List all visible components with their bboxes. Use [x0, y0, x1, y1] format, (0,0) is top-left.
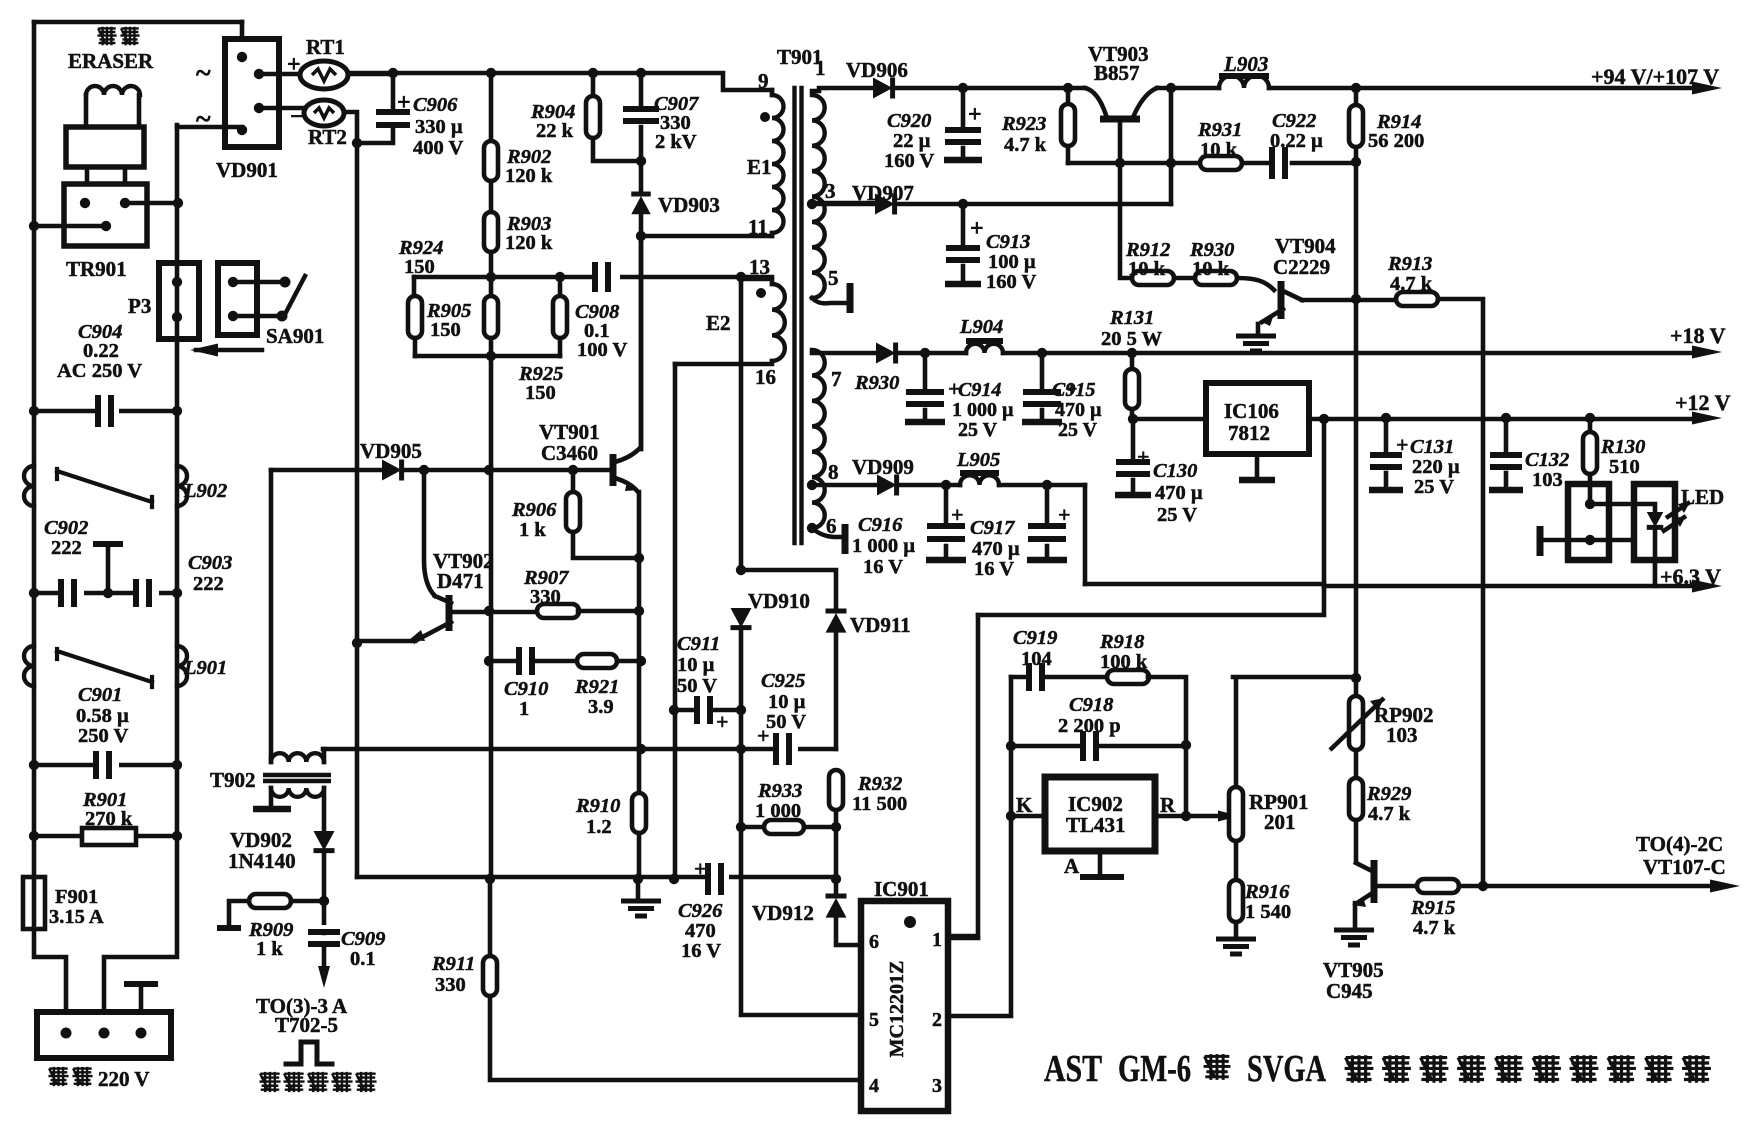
svg-text:22 µ: 22 µ	[893, 130, 931, 152]
svg-text:3.9: 3.9	[588, 696, 614, 718]
svg-text:25 V: 25 V	[958, 419, 998, 441]
svg-text:120 k: 120 k	[505, 165, 553, 187]
svg-text:R915: R915	[1410, 897, 1455, 919]
svg-text:4.7 k: 4.7 k	[1004, 134, 1047, 156]
svg-text:IC901: IC901	[874, 877, 929, 901]
svg-text:A: A	[1064, 854, 1080, 878]
svg-text:R913: R913	[1387, 253, 1432, 275]
svg-text:25 V: 25 V	[1058, 419, 1098, 441]
svg-text:~: ~	[196, 58, 211, 89]
svg-text:R932: R932	[857, 773, 902, 795]
svg-text:1: 1	[519, 698, 529, 720]
svg-text:0.1: 0.1	[350, 948, 376, 970]
svg-text:400 V: 400 V	[413, 137, 464, 159]
svg-text:+6.3 V: +6.3 V	[1660, 564, 1721, 589]
svg-text:+: +	[757, 723, 770, 748]
svg-text:20 5 W: 20 5 W	[1101, 328, 1163, 350]
svg-text:C918: C918	[1069, 694, 1113, 716]
svg-text:C131: C131	[1410, 436, 1454, 458]
svg-text:470 µ: 470 µ	[972, 538, 1020, 560]
svg-text:+: +	[397, 90, 411, 116]
svg-text:6: 6	[869, 931, 879, 953]
svg-text:+: +	[1396, 432, 1409, 457]
svg-text:2 kV: 2 kV	[655, 131, 697, 153]
svg-text:C3460: C3460	[541, 441, 598, 465]
svg-text:B857: B857	[1094, 61, 1140, 85]
svg-text:R911: R911	[431, 953, 475, 975]
svg-text:AST: AST	[1044, 1048, 1102, 1090]
svg-text:470: 470	[685, 920, 716, 942]
svg-text:E2: E2	[706, 311, 731, 335]
svg-text:C902: C902	[44, 517, 88, 539]
svg-text:11 500: 11 500	[852, 793, 907, 815]
svg-text:T902: T902	[210, 768, 256, 792]
svg-text:5: 5	[828, 266, 839, 290]
svg-text:R933: R933	[757, 780, 802, 802]
svg-text:50 V: 50 V	[677, 675, 717, 697]
svg-text:C945: C945	[1326, 979, 1373, 1003]
svg-text:330: 330	[435, 974, 466, 996]
svg-text:L905: L905	[956, 449, 1000, 471]
svg-text:AC 250 V: AC 250 V	[57, 360, 142, 382]
svg-text:1 000 µ: 1 000 µ	[852, 535, 915, 557]
svg-text:VD903: VD903	[658, 193, 720, 217]
svg-text:C911: C911	[677, 633, 720, 655]
svg-text:150: 150	[404, 256, 435, 278]
svg-text:C916: C916	[858, 514, 903, 536]
svg-text:R916: R916	[1244, 881, 1290, 903]
svg-text:7812: 7812	[1228, 421, 1270, 445]
svg-text:3: 3	[932, 1075, 942, 1097]
svg-text:−: −	[290, 104, 304, 130]
svg-text:1 000: 1 000	[755, 800, 801, 822]
svg-text:TR901: TR901	[66, 257, 127, 281]
svg-text:6: 6	[826, 514, 837, 538]
svg-text:1 000 µ: 1 000 µ	[952, 399, 1014, 421]
svg-text:+94 V/+107 V: +94 V/+107 V	[1591, 64, 1719, 89]
svg-text:5: 5	[869, 1009, 879, 1031]
svg-text:E1: E1	[747, 155, 772, 179]
svg-text:C919: C919	[1013, 627, 1057, 649]
svg-text:16 V: 16 V	[974, 558, 1014, 580]
svg-text:C132: C132	[1525, 449, 1569, 471]
svg-text:VD909: VD909	[852, 455, 914, 479]
svg-text:R: R	[1160, 793, 1176, 817]
svg-text:C2229: C2229	[1273, 255, 1330, 279]
svg-text:R931: R931	[1197, 119, 1242, 141]
svg-text:C909: C909	[341, 928, 385, 950]
svg-text:56 200: 56 200	[1368, 130, 1424, 152]
svg-text:SA901: SA901	[266, 324, 324, 348]
svg-text:150: 150	[525, 382, 556, 404]
svg-text:+: +	[694, 856, 707, 881]
svg-text:MC12201Z: MC12201Z	[886, 961, 908, 1058]
svg-text:L902: L902	[183, 480, 227, 502]
svg-text:GM-6: GM-6	[1118, 1048, 1191, 1090]
svg-text:+: +	[968, 102, 982, 128]
svg-text:C915: C915	[1052, 379, 1095, 401]
svg-text:330 µ: 330 µ	[415, 116, 463, 138]
svg-text:2: 2	[932, 1009, 942, 1031]
svg-text:SVGA: SVGA	[1247, 1048, 1326, 1090]
svg-text:1: 1	[815, 56, 826, 80]
svg-text:10 k: 10 k	[1200, 139, 1238, 161]
svg-text:C913: C913	[986, 231, 1030, 253]
svg-text:+: +	[287, 52, 301, 78]
svg-text:+: +	[970, 216, 984, 242]
svg-text:R921: R921	[574, 676, 619, 698]
svg-text:+18 V: +18 V	[1670, 323, 1726, 348]
svg-text:10 k: 10 k	[1192, 258, 1230, 280]
svg-text:270 k: 270 k	[85, 808, 133, 830]
svg-text:100 k: 100 k	[1100, 651, 1148, 673]
svg-text:TL431: TL431	[1066, 813, 1126, 837]
svg-text:C917: C917	[970, 517, 1015, 539]
svg-text:VD901: VD901	[216, 158, 278, 182]
svg-text:1 540: 1 540	[1245, 901, 1291, 923]
svg-text:470 µ: 470 µ	[1155, 482, 1203, 504]
svg-text:+: +	[716, 709, 729, 734]
svg-text:R930: R930	[854, 372, 899, 394]
svg-text:RT2: RT2	[308, 125, 347, 149]
svg-text:L904: L904	[959, 316, 1003, 338]
svg-text:120 k: 120 k	[505, 232, 553, 254]
svg-text:VD910: VD910	[748, 589, 810, 613]
svg-text:16 V: 16 V	[681, 940, 721, 962]
svg-text:250 V: 250 V	[78, 725, 129, 747]
svg-text:9: 9	[758, 69, 769, 93]
svg-text:4.7 k: 4.7 k	[1413, 917, 1456, 939]
svg-text:201: 201	[1264, 810, 1296, 834]
svg-text:P3: P3	[128, 294, 151, 318]
svg-text:C926: C926	[678, 900, 723, 922]
svg-text:104: 104	[1021, 648, 1052, 670]
svg-text:L903: L903	[1223, 52, 1268, 76]
svg-text:11: 11	[748, 215, 768, 239]
svg-text:3.15 A: 3.15 A	[49, 906, 104, 928]
svg-text:330: 330	[530, 586, 561, 608]
svg-text:3: 3	[825, 179, 836, 203]
svg-text:2 200 p: 2 200 p	[1058, 715, 1121, 737]
svg-text:1: 1	[932, 929, 942, 951]
svg-text:10 µ: 10 µ	[768, 691, 806, 713]
svg-text:R910: R910	[575, 795, 620, 817]
svg-text:103: 103	[1532, 469, 1563, 491]
svg-text:470 µ: 470 µ	[1055, 399, 1102, 421]
svg-text:C130: C130	[1153, 460, 1197, 482]
svg-text:TO(4)-2C: TO(4)-2C	[1636, 832, 1723, 856]
svg-text:1N4140: 1N4140	[228, 849, 296, 873]
svg-text:0.22 µ: 0.22 µ	[1270, 130, 1323, 152]
svg-text:1.2: 1.2	[586, 816, 612, 838]
svg-text:C920: C920	[887, 110, 931, 132]
svg-text:100 V: 100 V	[577, 339, 628, 361]
svg-text:C914: C914	[958, 379, 1001, 401]
svg-text:RT1: RT1	[306, 35, 345, 59]
svg-text:22 k: 22 k	[536, 120, 574, 142]
svg-text:D471: D471	[437, 569, 484, 593]
svg-text:4: 4	[869, 1075, 879, 1097]
svg-text:222: 222	[51, 537, 82, 559]
svg-text:VD906: VD906	[846, 58, 908, 82]
svg-text:L901: L901	[183, 657, 227, 679]
svg-text:VD907: VD907	[852, 181, 914, 205]
svg-text:+: +	[1058, 502, 1071, 527]
svg-text:+12 V: +12 V	[1675, 390, 1731, 415]
svg-text:R131: R131	[1109, 307, 1154, 329]
svg-text:100 µ: 100 µ	[988, 251, 1036, 273]
svg-text:+: +	[951, 502, 964, 527]
svg-text:25 V: 25 V	[1414, 476, 1454, 498]
svg-text:C922: C922	[1272, 110, 1316, 132]
svg-text:VT107-C: VT107-C	[1643, 855, 1726, 879]
svg-text:16 V: 16 V	[863, 556, 903, 578]
svg-text:R130: R130	[1600, 436, 1645, 458]
svg-text:4.7 k: 4.7 k	[1368, 803, 1411, 825]
svg-text:R906: R906	[511, 499, 557, 521]
svg-text:220 µ: 220 µ	[1412, 456, 1460, 478]
svg-text:R929: R929	[1366, 783, 1411, 805]
svg-text:8: 8	[828, 460, 839, 484]
svg-text:F901: F901	[55, 886, 98, 908]
svg-text:LED: LED	[1681, 485, 1724, 509]
svg-text:R923: R923	[1001, 113, 1046, 135]
svg-text:510: 510	[1609, 456, 1640, 478]
svg-text:1 k: 1 k	[256, 938, 283, 960]
svg-text:7: 7	[831, 367, 842, 391]
svg-text:K: K	[1016, 793, 1033, 817]
svg-text:4.7 k: 4.7 k	[1390, 273, 1433, 295]
svg-text:25 V: 25 V	[1157, 504, 1197, 526]
svg-text:50 V: 50 V	[766, 711, 806, 733]
svg-text:C906: C906	[413, 94, 458, 116]
svg-text:103: 103	[1386, 723, 1418, 747]
svg-text:ERASER: ERASER	[68, 49, 154, 73]
svg-text:160 V: 160 V	[884, 150, 935, 172]
svg-text:T702-5: T702-5	[275, 1013, 338, 1037]
svg-text:1 k: 1 k	[519, 519, 546, 541]
svg-text:VD912: VD912	[752, 901, 814, 925]
svg-text:220 V: 220 V	[98, 1067, 150, 1091]
svg-text:+: +	[1137, 444, 1150, 469]
svg-text:VD911: VD911	[850, 613, 911, 637]
svg-text:13: 13	[749, 255, 770, 279]
svg-text:VD905: VD905	[360, 439, 422, 463]
svg-text:0.22: 0.22	[83, 340, 119, 362]
svg-text:16: 16	[755, 365, 776, 389]
svg-text:R918: R918	[1099, 631, 1144, 653]
svg-text:150: 150	[430, 319, 461, 341]
svg-text:C901: C901	[78, 684, 122, 706]
svg-text:160 V: 160 V	[986, 271, 1037, 293]
svg-text:C903: C903	[188, 552, 232, 574]
svg-text:0.58 µ: 0.58 µ	[76, 705, 129, 727]
svg-text:~: ~	[196, 104, 211, 135]
svg-text:10 k: 10 k	[1128, 258, 1166, 280]
svg-text:10 µ: 10 µ	[677, 654, 715, 676]
svg-text:IC106: IC106	[1224, 399, 1279, 423]
svg-text:C910: C910	[504, 678, 548, 700]
svg-text:222: 222	[193, 573, 224, 595]
svg-text:C925: C925	[761, 670, 805, 692]
